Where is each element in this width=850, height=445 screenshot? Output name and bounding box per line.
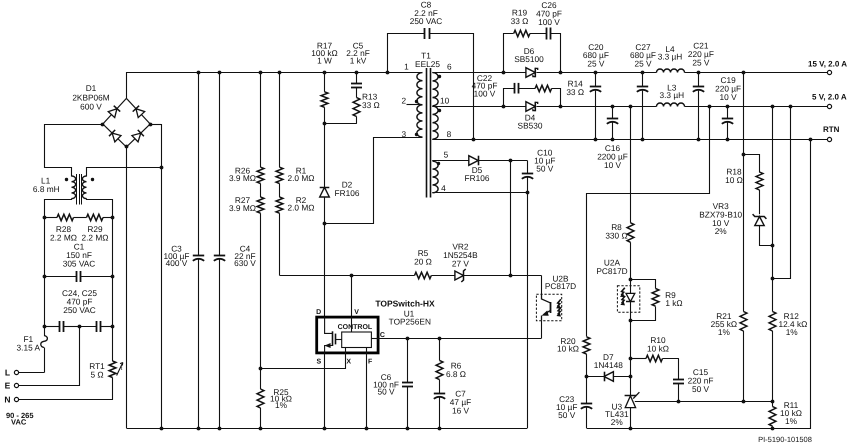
node junction R10 tap [629, 357, 633, 361]
node junction C15 ref [677, 400, 681, 404]
node junction C10 bottom [526, 191, 530, 195]
diode D4 SB530 [518, 102, 543, 131]
pin 5 label [437, 149, 449, 165]
diode D2 FR106 [320, 124, 360, 224]
wire X pin to R25 node [261, 353, 346, 369]
svg-text:10 V: 10 V [604, 160, 622, 170]
pin 2 stub [401, 96, 422, 106]
resistor R26 3.9 Mohm [229, 72, 264, 184]
svg-text:6.8 mH: 6.8 mH [33, 184, 60, 194]
svg-text:2.2 MΩ: 2.2 MΩ [82, 232, 109, 242]
capacitor C4 22 nF 630 V [214, 72, 257, 428]
wire R12 column 5V to ref [772, 106, 774, 312]
svg-text:S: S [316, 359, 321, 366]
svg-text:1 W: 1 W [317, 55, 332, 65]
svg-text:1 kV: 1 kV [350, 55, 367, 65]
svg-text:6.8 Ω: 6.8 Ω [446, 369, 466, 379]
capacitor C7 47 uF 16 V [434, 380, 471, 428]
node junction LED cathode [629, 319, 633, 323]
svg-text:33 Ω: 33 Ω [566, 87, 584, 97]
resistor R10 10 kohm [630, 335, 679, 362]
inductor L3 3.3 uH [657, 83, 685, 107]
zener VR2 1N5254B 27 V [443, 242, 541, 282]
wire right input column [112, 218, 114, 327]
resistor R21 255 kohm 1 percent [711, 311, 747, 401]
node junction X node R26 R27 bottom [259, 367, 263, 371]
svg-text:D: D [316, 309, 321, 316]
svg-text:330 Ω: 330 Ω [605, 230, 627, 240]
thermistor RT1 5 ohm [89, 327, 123, 400]
diode D5 FR106 [465, 156, 528, 184]
svg-text:50 V: 50 V [536, 164, 554, 174]
wire bridge left vertex to L1 left winding top [45, 125, 103, 177]
svg-text:400 V: 400 V [166, 258, 188, 268]
svg-text:5: 5 [444, 149, 449, 159]
node junction D7 cathode node [585, 375, 589, 379]
svg-text:N: N [4, 395, 10, 405]
svg-text:1%: 1% [718, 327, 731, 337]
svg-text:50 V: 50 V [558, 410, 576, 420]
node junction D5 cathode [509, 159, 513, 163]
terminal N [4, 395, 113, 405]
svg-text:2: 2 [401, 96, 406, 106]
transformer T1 EEL25 [415, 51, 440, 198]
wire RTN rail pin 8 [432, 139, 828, 141]
node junction R18 branch [742, 153, 746, 157]
wire V pin riser [351, 276, 353, 318]
svg-text:4: 4 [441, 183, 446, 193]
node junction C24 C25 midpoint [78, 325, 82, 329]
node junction V pin riser [350, 274, 354, 278]
capacitor C15 220 nF 50 V [673, 359, 713, 402]
node junctions primary rail [160, 427, 164, 431]
terminal E [5, 327, 80, 391]
resistor R9 1 kohm [631, 280, 683, 321]
svg-text:1%: 1% [785, 416, 798, 426]
wire bias riser to VR2 node [510, 160, 512, 276]
resistor R8 330 ohm [605, 222, 634, 280]
capacitor C19 220 uF 10 V [715, 75, 741, 141]
svg-text:33 Ω: 33 Ω [511, 16, 529, 26]
resistor R6 6.8 ohm [436, 337, 466, 380]
resistor R29 2.2 Mohm [74, 214, 114, 242]
svg-text:100 V: 100 V [538, 17, 560, 27]
resistor R17 100 kohm 1 W [311, 41, 338, 124]
resistor R19 33 ohm snubber [504, 7, 530, 72]
resistor R13 33 ohm [325, 91, 380, 123]
terminal RTN output [823, 125, 840, 142]
svg-text:L: L [5, 368, 10, 378]
capacitor C20 680 uF 25 V [583, 42, 609, 142]
wire 5V tap to R8 [630, 106, 632, 223]
svg-text:25 V: 25 V [634, 58, 652, 68]
svg-text:16 V: 16 V [452, 405, 470, 415]
svg-text:2.0 MΩ: 2.0 MΩ [288, 173, 315, 183]
capacitor C5 2.2 nF 1 kV [346, 41, 370, 98]
svg-text:600 V: 600 V [80, 102, 102, 112]
node junction R17 R13 [323, 122, 327, 126]
svg-text:F: F [368, 359, 373, 366]
svg-text:3: 3 [401, 129, 406, 139]
node junction R21 ref [742, 400, 746, 404]
svg-text:FR106: FR106 [335, 188, 360, 198]
optocoupler U2B PC817D phototransistor [536, 274, 576, 321]
capacitor C8 2.2 nF 250 VAC [388, 0, 474, 140]
svg-text:10 kΩ: 10 kΩ [647, 344, 669, 354]
svg-text:50 V: 50 V [377, 387, 395, 397]
wire L1 right winding top jog [87, 168, 162, 177]
svg-text:2%: 2% [715, 226, 728, 236]
svg-text:3.15 A: 3.15 A [17, 342, 41, 352]
svg-text:10 Ω: 10 Ω [725, 175, 743, 185]
svg-text:3.9 MΩ: 3.9 MΩ [229, 203, 256, 213]
wire AC input top bus B+ [126, 72, 422, 74]
capacitor C22 470 pF 100 V [472, 73, 536, 106]
node junctions snubber D4 [502, 105, 506, 109]
svg-text:1%: 1% [786, 327, 799, 337]
svg-text:20 Ω: 20 Ω [414, 257, 432, 267]
zener VR3 BZX79-B10 10 V 2 percent [699, 201, 772, 245]
wire left input column [44, 218, 46, 327]
svg-text:630 V: 630 V [234, 258, 256, 268]
svg-text:PC817D: PC817D [596, 266, 627, 276]
svg-text:C: C [380, 332, 385, 339]
label 90-265 VAC [6, 411, 34, 427]
node junction drain [323, 222, 327, 226]
svg-text:305 VAC: 305 VAC [63, 258, 96, 268]
resistor R28 2.2 Mohm [44, 214, 77, 242]
wire drain node D2 to U1 D pin [324, 223, 326, 317]
wire 15V sense column [743, 72, 745, 312]
svg-text:TOPSwitch-HX: TOPSwitch-HX [375, 298, 435, 308]
capacitor C26 470 pF 100 V [530, 0, 562, 72]
wire bridge top riser [126, 72, 128, 98]
svg-text:FR106: FR106 [465, 173, 490, 183]
node junctions secondary rail [629, 427, 633, 431]
svg-text:10 V: 10 V [720, 92, 738, 102]
svg-text:E: E [5, 380, 11, 390]
svg-text:TOP256EN: TOP256EN [389, 317, 431, 327]
svg-text:25 V: 25 V [587, 58, 605, 68]
capacitor C23 10 uF 50 V [556, 377, 592, 428]
node junction VR3 to R12 column [771, 244, 775, 248]
node junction R12 R11 ref [771, 400, 775, 404]
wire pin 4 return [432, 192, 527, 194]
resistor R14 33 ohm [535, 79, 584, 107]
svg-text:3.9 MΩ: 3.9 MΩ [229, 173, 256, 183]
svg-text:1N4148: 1N4148 [594, 360, 623, 370]
svg-text:10: 10 [440, 96, 450, 106]
svg-text:V: V [354, 309, 359, 316]
svg-text:2.0 MΩ: 2.0 MΩ [288, 203, 315, 213]
diode D6 SB5100 [514, 46, 544, 77]
resistor R20 10 kohm [557, 336, 590, 377]
inductor L4 3.3 uH [657, 44, 685, 73]
resistor R1 2.0 Mohm [276, 72, 314, 184]
capacitor C10 10 uF 50 V [522, 148, 556, 194]
svg-text:3.3 µH: 3.3 µH [659, 90, 684, 100]
wire pin 5 to D5 [432, 160, 469, 162]
node junction C8 to RTN [472, 138, 476, 142]
terminal L [5, 368, 44, 378]
wire L1 left winding bottom [45, 199, 72, 218]
svg-text:1%: 1% [275, 400, 288, 410]
svg-text:1: 1 [404, 62, 409, 72]
bridge rectifier D1 2KBP06M [72, 83, 152, 149]
wire 5V second tap bridge [773, 107, 791, 279]
svg-text:X: X [346, 359, 351, 366]
capacitor C6 100 nF 50 V [373, 337, 413, 428]
resistor R11 10 kohm 1 percent [769, 400, 802, 428]
capacitor C27 680 uF 25 V [630, 42, 656, 142]
capacitor C16 2200 uF 10 V [597, 105, 628, 170]
resistor R5 20 ohm [414, 248, 455, 279]
svg-text:CONTROL: CONTROL [338, 324, 373, 331]
op-amp U1 TOP256EN TOPSwitch-HX [316, 298, 435, 365]
svg-text:27 V: 27 V [452, 259, 470, 269]
wire L1 right winding bottom [87, 199, 113, 218]
wire C-node U1 C pin to opto emitter [378, 338, 541, 340]
terminal 15V output [808, 60, 847, 75]
node junction 5V bridge to R12 column [771, 277, 775, 281]
wire secondary ground rail [587, 140, 811, 429]
node junctions input columns [43, 216, 47, 220]
diode D7 1N4148 [587, 352, 631, 381]
svg-text:100 V: 100 V [474, 88, 496, 98]
svg-text:5 Ω: 5 Ω [90, 370, 103, 380]
optocoupler U2A PC817D LED [596, 258, 639, 321]
resistor R2 2.0 Mohm [276, 184, 314, 276]
svg-text:SB530: SB530 [518, 120, 543, 130]
svg-text:2%: 2% [611, 417, 624, 427]
pin 3 wire to drain [325, 129, 423, 223]
wire U2B collector riser [541, 276, 543, 295]
node junctions snubber D6 [502, 71, 506, 75]
svg-text:VAC: VAC [11, 418, 27, 427]
svg-text:8: 8 [447, 129, 452, 139]
node junction LED anode [629, 278, 633, 282]
svg-text:250 VAC: 250 VAC [410, 16, 443, 26]
svg-text:33 Ω: 33 Ω [362, 100, 380, 110]
capacitor C3 100 uF 400 V [164, 72, 205, 428]
wire bridge bottom to primary return rail [126, 147, 128, 428]
shunt regulator U3 TL431 2 percent [605, 392, 639, 428]
svg-text:PI-5190-101508: PI-5190-101508 [758, 435, 812, 444]
capacitor C1 150 nF 305 VAC [44, 242, 113, 282]
svg-text:1 kΩ: 1 kΩ [665, 298, 682, 308]
svg-text:EEL25: EEL25 [415, 59, 440, 69]
wire TL431 ref [635, 401, 772, 403]
fuse F1 3.15 A [17, 327, 48, 373]
pin 6 label [438, 62, 452, 79]
node junction bias to VR2 [509, 274, 513, 278]
svg-text:250 VAC: 250 VAC [63, 305, 96, 315]
capacitor C24 470 pF [44, 321, 79, 332]
node junctions 5V rail taps [629, 105, 633, 109]
svg-text:50 V: 50 V [692, 384, 710, 394]
svg-text:15 V, 2.0 A: 15 V, 2.0 A [808, 60, 847, 69]
wire V-node R2 to R5 to VR2 to opto [280, 275, 415, 277]
svg-text:3.3 µH: 3.3 µH [658, 51, 683, 61]
resistor R25 10 kohm 1 percent [257, 369, 292, 428]
wire S pin to rail [324, 353, 326, 428]
resistor R12 12.4 kohm 1 percent [769, 311, 807, 401]
wire 15V rail pin 6 [432, 72, 526, 74]
resistor R18 10 ohm [725, 155, 763, 215]
inductor L1 6.8 mH common-mode choke [33, 174, 94, 205]
svg-text:10 kΩ: 10 kΩ [557, 344, 579, 354]
capacitor C21 220 uF 25 V [688, 41, 714, 142]
node junctions top bus [197, 71, 201, 75]
wire 5V rail pin 10 [432, 106, 526, 108]
svg-text:25 V: 25 V [692, 57, 710, 67]
svg-text:5 V, 2.0 A: 5 V, 2.0 A [812, 93, 847, 102]
svg-text:SB5100: SB5100 [514, 54, 544, 64]
node junction L1 right top [160, 166, 164, 170]
resistor R27 3.9 Mohm [229, 184, 264, 370]
terminal 5V output [812, 93, 847, 109]
wire LED cathode to TL431 [630, 320, 632, 395]
wire primary ground rail [126, 428, 527, 430]
svg-text:RTN: RTN [823, 125, 840, 134]
svg-text:6: 6 [447, 62, 452, 72]
wire bridge right vertex riser down to primary return rail [150, 124, 161, 126]
wire 5V sense to R20 [587, 107, 710, 337]
capacitor C25 470 pF [62, 288, 113, 332]
svg-text:PC817D: PC817D [545, 281, 576, 291]
wire F pin to rail [366, 353, 368, 428]
pin 10 label [438, 96, 450, 113]
